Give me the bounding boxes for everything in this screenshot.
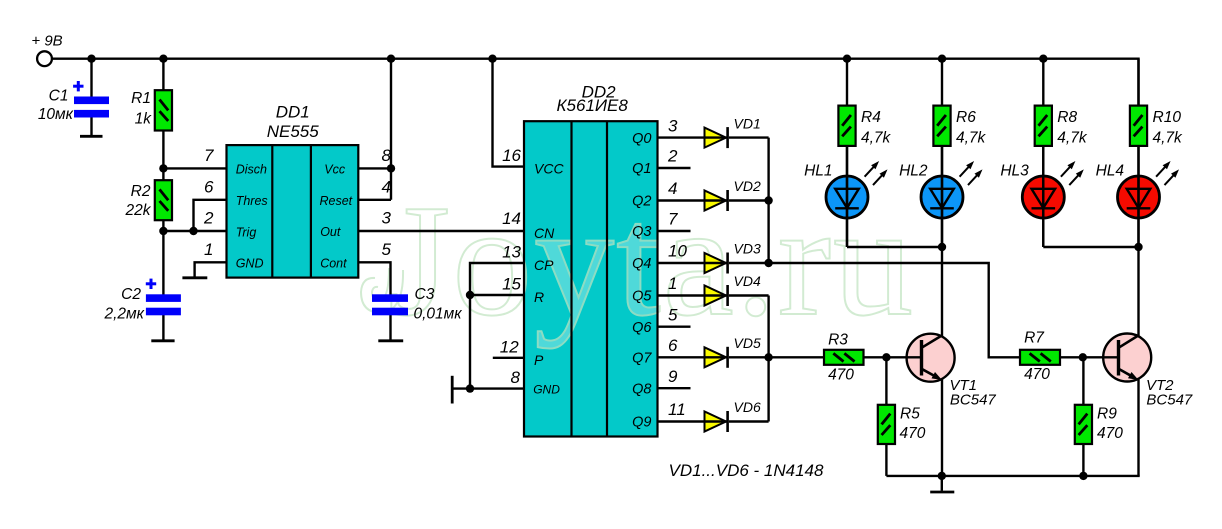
svg-text:0,01мк: 0,01мк [414,305,463,322]
svg-text:VD3: VD3 [734,241,761,257]
svg-text:R2: R2 [131,183,151,200]
svg-text:470: 470 [828,367,854,384]
svg-text:R3: R3 [828,332,848,349]
svg-text:10мк: 10мк [38,106,74,123]
svg-text:2: 2 [667,147,678,166]
svg-text:4,7k: 4,7k [956,130,987,147]
svg-text:CN: CN [534,225,555,241]
svg-text:GND: GND [533,383,560,397]
svg-text:VD5: VD5 [734,335,761,351]
svg-text:14: 14 [502,209,521,228]
svg-text:16: 16 [502,146,521,165]
svg-text:Q6: Q6 [632,320,652,336]
svg-text:Q4: Q4 [632,256,651,272]
svg-text:470: 470 [1097,425,1123,442]
svg-text:4: 4 [668,179,677,198]
svg-text:4,7k: 4,7k [1153,130,1184,147]
svg-text:8: 8 [511,368,521,387]
svg-text:22k: 22k [125,202,152,219]
svg-text:Q8: Q8 [632,381,651,397]
svg-text:10: 10 [668,242,687,261]
svg-text:5: 5 [668,305,678,324]
svg-text:CP: CP [534,257,554,273]
svg-text:NE555: NE555 [267,122,320,141]
svg-text:VD4: VD4 [734,273,761,289]
svg-text:BC547: BC547 [1146,391,1193,408]
svg-text:VD6: VD6 [734,399,761,415]
svg-text:C2: C2 [121,286,141,303]
svg-text:R5: R5 [900,406,920,423]
svg-text:4,7k: 4,7k [861,130,892,147]
svg-text:Disch: Disch [236,163,267,177]
svg-text:Trig: Trig [236,225,257,239]
svg-text:GND: GND [236,257,264,271]
svg-text:HL1: HL1 [804,163,832,180]
svg-text:8: 8 [382,146,392,165]
svg-text:Q3: Q3 [632,224,651,240]
svg-text:470: 470 [1024,366,1050,383]
svg-text:5: 5 [382,240,392,259]
svg-text:R9: R9 [1097,406,1117,423]
svg-text:HL4: HL4 [1096,163,1125,180]
svg-text:6: 6 [204,177,214,196]
svg-text:Q2: Q2 [632,194,651,210]
svg-text:P: P [534,352,544,368]
svg-text:4,7k: 4,7k [1057,130,1088,147]
svg-text:Out: Out [320,225,341,239]
svg-text:7: 7 [668,210,678,229]
svg-text:1k: 1k [135,111,153,128]
svg-text:1: 1 [668,274,677,293]
svg-text:К561ИЕ8: К561ИЕ8 [557,96,629,115]
svg-text:3: 3 [382,209,392,228]
svg-text:15: 15 [502,275,521,294]
svg-text:11: 11 [668,400,686,419]
svg-text:1: 1 [204,240,213,259]
svg-text:2,2мк: 2,2мк [104,305,145,322]
svg-text:Q7: Q7 [632,351,652,367]
svg-text:3: 3 [668,116,678,135]
svg-text:Q0: Q0 [632,131,651,147]
svg-text:Reset: Reset [320,194,353,208]
svg-text:+ 9В: + 9В [31,33,62,50]
svg-text:7: 7 [204,146,214,165]
svg-text:VD1: VD1 [734,115,761,131]
svg-text:C3: C3 [415,286,435,303]
svg-text:Vcc: Vcc [324,162,346,176]
svg-text:HL2: HL2 [899,163,928,180]
svg-text:Thres: Thres [236,194,268,208]
svg-text:VCC: VCC [534,161,564,177]
svg-text:6: 6 [668,336,678,355]
svg-text:12: 12 [500,337,519,356]
svg-text:Q9: Q9 [632,415,651,431]
svg-text:2: 2 [203,209,214,228]
svg-text:HL3: HL3 [1000,163,1029,180]
svg-text:DD1: DD1 [276,102,310,121]
svg-text:R6: R6 [956,109,976,126]
svg-text:9: 9 [668,367,678,386]
svg-text:BC547: BC547 [950,391,997,408]
svg-text:R1: R1 [131,90,151,107]
svg-text:R8: R8 [1057,109,1077,126]
svg-text:Q5: Q5 [632,289,652,305]
svg-text:R4: R4 [861,109,881,126]
svg-text:R10: R10 [1153,109,1182,126]
svg-text:Q1: Q1 [632,161,651,177]
svg-text:13: 13 [502,243,521,262]
svg-text:VD2: VD2 [734,178,761,194]
svg-text:470: 470 [900,425,926,442]
svg-text:4: 4 [382,177,391,196]
svg-text:R7: R7 [1024,329,1045,346]
svg-text:R: R [534,289,544,305]
svg-text:Cont: Cont [320,256,347,270]
svg-text:C1: C1 [49,88,69,105]
svg-text:VD1...VD6 - 1N4148: VD1...VD6 - 1N4148 [669,461,825,480]
